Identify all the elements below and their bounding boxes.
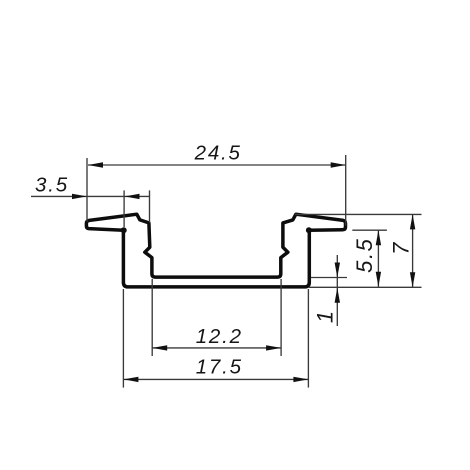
- extension line E10 (12.2 right, x=281.1): [280, 279, 282, 356]
- dimension 17.5 left arrow: [123, 377, 138, 382]
- extension line E3 (left inner lip, x=149.5): [149, 190, 151, 222]
- left wing-wall junction fillet dot: [121, 227, 127, 233]
- dimension 5.5 bottom arrow: [376, 272, 381, 287]
- dimension 12.2 line: [152, 347, 281, 349]
- dimension 17.5 line: [123, 378, 308, 380]
- dimension 12.2 right arrow: [266, 345, 281, 350]
- dimension 3.5 right arrow (outside, pointing left): [125, 194, 140, 199]
- svg-text:17.5: 17.5: [196, 355, 243, 378]
- extension line E12 (17.5 right, x=308.4): [307, 289, 309, 388]
- dimension 7 top arrow: [410, 214, 415, 229]
- dimension 7 bottom arrow: [410, 272, 415, 287]
- extension line E8 (inner bottom level, y=277.5): [311, 277, 347, 279]
- dimension 3.5 left arrow (outside, pointing right): [72, 194, 87, 199]
- svg-text:3.5: 3.5: [35, 174, 69, 197]
- extension line E1 (left wing tip, x=87): [86, 158, 88, 222]
- dimension 24.5 left arrow: [88, 162, 103, 167]
- extension line E7 (outer bottom level, y=287.3): [309, 286, 422, 288]
- extension line E5 (wing top level, y=214.4): [295, 213, 422, 215]
- svg-text:1: 1: [313, 309, 338, 323]
- extension line E6 (wing underside level, y=230.2): [352, 229, 387, 231]
- svg-text:5.5: 5.5: [352, 238, 377, 273]
- dimension 1 lower arrow (pointing up): [335, 288, 340, 303]
- dimension 1 upper arrow (pointing down): [335, 263, 340, 278]
- profile outline (aluminium recessed LED channel cross-section): [86, 214, 345, 287]
- extension line E4 (right wing tip, x=345.7): [345, 155, 347, 226]
- svg-text:12.2: 12.2: [196, 325, 243, 348]
- dimension 5.5 top arrow: [376, 230, 381, 245]
- dimension 24.5 right arrow: [331, 162, 346, 167]
- dimension 3.5 line: [31, 195, 150, 197]
- extension line E11 (17.5 left, x=123.4): [122, 289, 124, 388]
- dimension 7 line: [412, 214, 414, 287]
- dimension 24.5 line: [88, 164, 346, 166]
- dimension 12.2 left arrow: [152, 345, 167, 350]
- right wing-wall junction fillet dot: [306, 227, 312, 233]
- dimension 17.5 right arrow: [293, 377, 308, 382]
- extension line E9 (12.2 left, x=152.2): [151, 279, 153, 356]
- extension line E2 (left outer wall, x=124.1): [123, 190, 125, 227]
- svg-text:24.5: 24.5: [194, 142, 242, 165]
- svg-text:7: 7: [388, 241, 413, 255]
- dimension 1 line: [336, 255, 338, 326]
- dimension 5.5 line: [377, 230, 379, 286]
